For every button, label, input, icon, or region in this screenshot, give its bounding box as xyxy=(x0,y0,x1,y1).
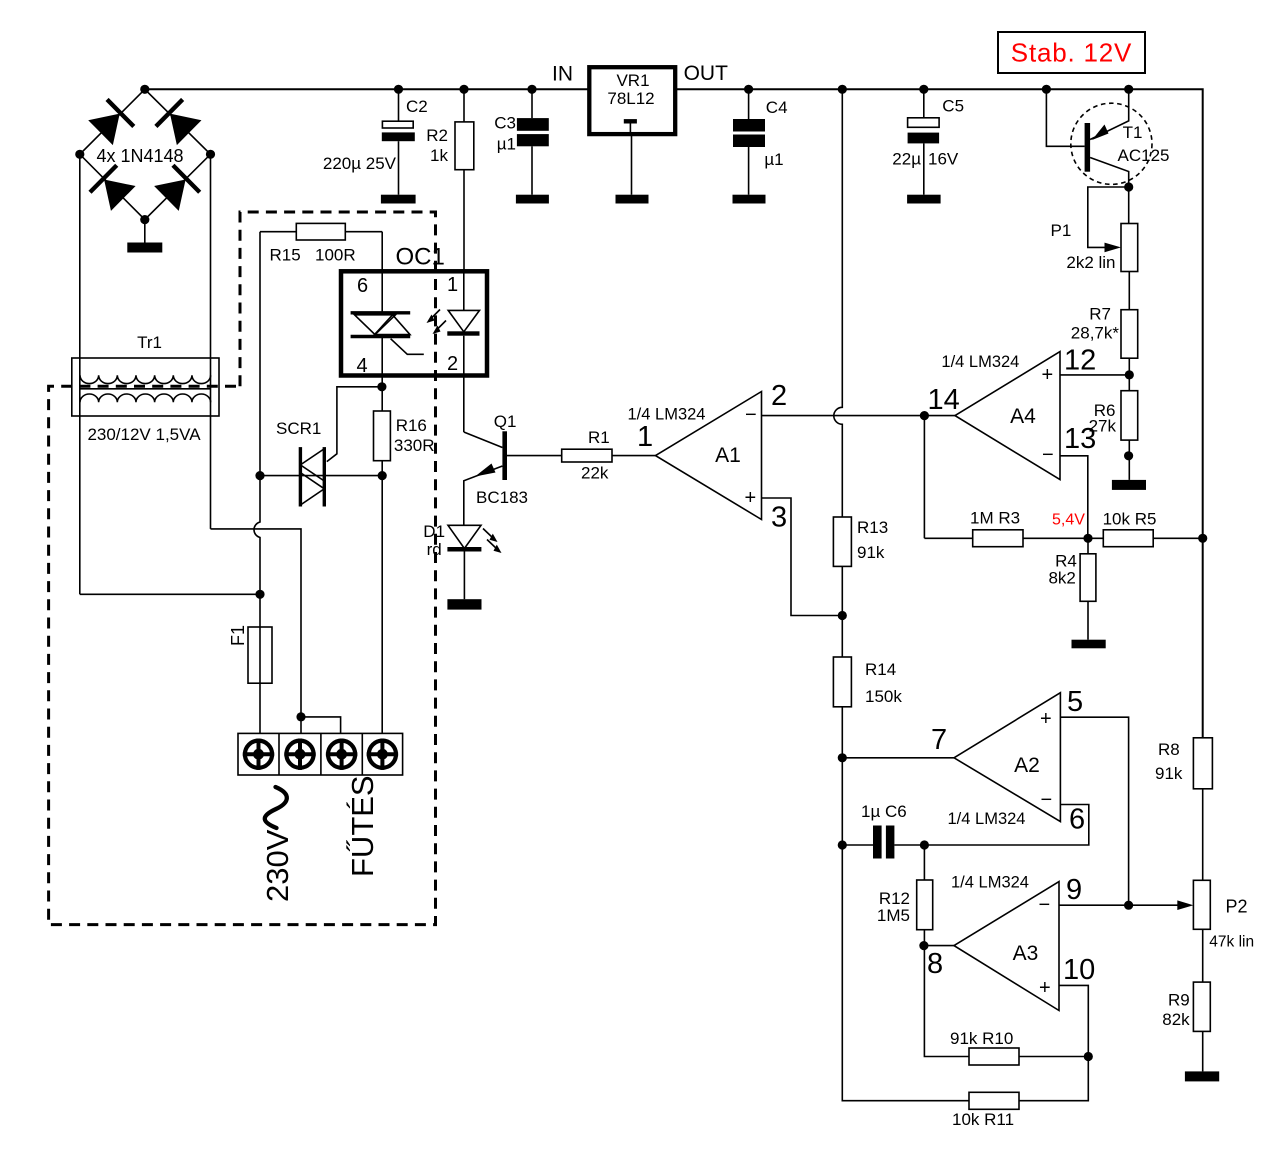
Tr1 primary winding (bottom) xyxy=(80,394,211,402)
svg-text:10k R5: 10k R5 xyxy=(1103,510,1157,529)
svg-text:2: 2 xyxy=(771,380,787,412)
node R10/R11/pin10 xyxy=(1084,1052,1093,1061)
svg-text:BC183: BC183 xyxy=(476,488,528,507)
node bridge left xyxy=(75,150,84,159)
svg-text:8k2: 8k2 xyxy=(1048,569,1075,588)
node rail/T1 base xyxy=(1042,85,1051,94)
node bridge right xyxy=(206,150,215,159)
terminal screw 4 xyxy=(367,739,398,770)
wire P1 to R7 xyxy=(1128,272,1130,310)
diode D top-left xyxy=(87,99,134,146)
optocoupler OC1 box xyxy=(341,271,487,375)
ground below R4 xyxy=(1072,640,1106,649)
Tr1 secondary winding (top) xyxy=(80,375,211,383)
svg-text:R14: R14 xyxy=(865,660,896,679)
svg-text:330R: 330R xyxy=(394,436,435,455)
svg-text:µ1: µ1 xyxy=(497,135,516,154)
wire A4 pin13 down to R3/R4/R5 node xyxy=(1060,456,1088,539)
svg-text:rd: rd xyxy=(427,540,442,559)
wire A2 pin5 to A3 pin9 node xyxy=(1060,717,1128,905)
svg-text:R7: R7 xyxy=(1089,305,1111,324)
ground below D1 xyxy=(447,599,481,609)
ground below bridge xyxy=(127,243,162,253)
node rail/C2 xyxy=(394,85,403,94)
svg-text:22k: 22k xyxy=(581,464,609,483)
wire A3 pin10 down to R10 node xyxy=(1059,985,1088,1056)
node T1 collector/P1 xyxy=(1124,182,1133,191)
svg-text:100R: 100R xyxy=(315,246,356,265)
capacitor C3 xyxy=(531,89,533,118)
svg-text:150k: 150k xyxy=(865,687,902,706)
resistor R11 xyxy=(969,1092,1019,1109)
svg-text:6: 6 xyxy=(1069,804,1085,836)
svg-text:82k: 82k xyxy=(1162,1010,1190,1029)
OC1 internal triac xyxy=(351,311,411,314)
T1 dashed circle xyxy=(1071,103,1152,184)
node R3/R4/R5 xyxy=(1083,534,1092,543)
transistor Q1 BC183 xyxy=(464,432,503,448)
svg-text:1/4 LM324: 1/4 LM324 xyxy=(951,874,1029,892)
resistor R7 xyxy=(1121,310,1138,359)
resistor R16 xyxy=(381,387,383,411)
node OC1 pin4/R16/gate xyxy=(377,382,386,391)
fuse F1 xyxy=(259,594,261,733)
potentiometer P1 xyxy=(1121,224,1138,272)
svg-text:R16: R16 xyxy=(396,416,427,435)
svg-text:−: − xyxy=(1042,444,1054,466)
resistor R10 xyxy=(924,946,969,1057)
ground below C3 xyxy=(516,195,549,204)
svg-text:−: − xyxy=(1041,789,1053,811)
svg-text:12: 12 xyxy=(1064,345,1096,377)
svg-text:2k2 lin: 2k2 lin xyxy=(1066,253,1115,272)
ground below C2 xyxy=(381,195,416,204)
svg-text:IN: IN xyxy=(552,63,573,86)
svg-text:+: + xyxy=(745,487,757,509)
svg-text:R9: R9 xyxy=(1168,991,1190,1010)
node bridge bottom xyxy=(140,215,149,224)
svg-text:28,7k*: 28,7k* xyxy=(1071,324,1120,343)
svg-text:1M5: 1M5 xyxy=(877,906,910,925)
230V tilde symbol xyxy=(265,787,287,828)
wire transformer right down and across to terminal 2 xyxy=(211,529,302,717)
svg-text:47k lin: 47k lin xyxy=(1209,933,1254,950)
svg-text:16V: 16V xyxy=(928,150,959,169)
wire top supply rail right of VR1 and right edge down to R8 xyxy=(675,89,1202,738)
svg-text:OUT: OUT xyxy=(684,62,729,85)
svg-text:10k R11: 10k R11 xyxy=(952,1110,1014,1129)
wire A2 pin6 to C6 node xyxy=(924,805,1088,846)
svg-text:230V: 230V xyxy=(260,829,295,902)
resistor R15 xyxy=(296,223,345,240)
node A4 output xyxy=(920,411,929,420)
svg-text:91k R10: 91k R10 xyxy=(950,1029,1013,1048)
svg-text:R15: R15 xyxy=(270,246,301,265)
ground below C5 xyxy=(907,195,941,204)
node C6 left xyxy=(838,840,847,849)
op-amp A3 (1/4 LM324) xyxy=(954,882,1059,1011)
triac SCR1 xyxy=(299,447,302,506)
svg-text:14: 14 xyxy=(928,384,960,416)
op-amp A4 (1/4 LM324) xyxy=(955,352,1060,480)
svg-text:R13: R13 xyxy=(857,518,888,537)
svg-text:3: 3 xyxy=(771,502,787,534)
capacitor C6 xyxy=(873,826,882,859)
node rail/C4 xyxy=(744,85,753,94)
wire A4 pin12 to R7/R6 node xyxy=(1060,374,1129,376)
resistor R1 xyxy=(562,449,612,462)
svg-text:A2: A2 xyxy=(1014,754,1040,777)
regulator VR1 78L12 xyxy=(589,67,675,134)
resistor R13 xyxy=(833,517,851,566)
D1 light arrows xyxy=(483,529,498,551)
svg-text:5: 5 xyxy=(1067,686,1083,718)
svg-text:VR1: VR1 xyxy=(616,71,649,90)
wire bridge right node down to transformer xyxy=(210,154,212,529)
wire R13 column from rail with hop over A1 output line xyxy=(834,89,843,517)
svg-text:P1: P1 xyxy=(1051,221,1072,240)
Tr1 core line xyxy=(80,388,211,390)
ground below C4 xyxy=(733,195,766,204)
svg-text:2: 2 xyxy=(447,353,458,375)
wire bridge left node down to transformer primary xyxy=(79,154,81,594)
ground below R6 xyxy=(1112,480,1146,490)
svg-text:SCR1: SCR1 xyxy=(276,419,321,438)
node SCR right/R16 xyxy=(378,471,387,480)
terminal screw 1 xyxy=(243,739,274,770)
ground below R9 xyxy=(1185,1071,1219,1081)
resistor R6 xyxy=(1128,375,1130,391)
svg-text:22µ: 22µ xyxy=(892,150,921,169)
svg-text:+: + xyxy=(1039,977,1051,999)
node rail/R13 xyxy=(838,85,847,94)
bridge rectifier 4x 1N4148 diamond wires xyxy=(80,89,211,219)
node F1 top xyxy=(255,590,264,599)
diode D bottom-left xyxy=(90,165,137,212)
wire A1 pin2 to A4 output node xyxy=(762,415,925,417)
svg-text:OC1: OC1 xyxy=(396,244,445,271)
wire terminal 2-3 jumper xyxy=(301,717,341,734)
node C6/R12/pin6 xyxy=(920,840,929,849)
svg-text:A4: A4 xyxy=(1010,405,1036,428)
svg-text:91k: 91k xyxy=(857,543,885,562)
OC1 pin 6 wire xyxy=(381,232,383,313)
wire T1 collector to P1 xyxy=(1128,187,1130,224)
node R14/pin7 xyxy=(838,753,847,762)
node R6 bottom xyxy=(1124,451,1133,460)
terminal screw 2 xyxy=(284,739,315,770)
wire A3 output to R12/R10 node xyxy=(924,945,954,947)
diode D top-right xyxy=(156,99,203,146)
resistor R4 xyxy=(1087,538,1089,554)
node rail/C3 xyxy=(527,85,536,94)
svg-text:9: 9 xyxy=(1066,874,1082,906)
svg-text:8: 8 xyxy=(927,948,943,980)
svg-text:Stab. 12V: Stab. 12V xyxy=(1011,38,1132,68)
potentiometer P2 xyxy=(1193,880,1210,929)
wire bridge bottom node to ground xyxy=(144,220,146,243)
wire R15 left corner down to SCR node with hop over mains wire xyxy=(254,232,260,595)
svg-text:R8: R8 xyxy=(1158,740,1180,759)
resistor R14 xyxy=(833,657,851,707)
svg-text:R2: R2 xyxy=(426,126,448,145)
node A3 out/R12/R10 xyxy=(919,941,928,950)
svg-text:C2: C2 xyxy=(406,97,428,116)
svg-text:A3: A3 xyxy=(1013,942,1039,965)
svg-text:6: 6 xyxy=(357,275,368,297)
LED D1 xyxy=(448,525,481,548)
svg-text:1k: 1k xyxy=(430,146,448,165)
svg-text:Q1: Q1 xyxy=(494,412,517,431)
svg-text:1/4 LM324: 1/4 LM324 xyxy=(948,810,1026,828)
OC1 LED light arrows xyxy=(430,310,447,332)
svg-text:C5: C5 xyxy=(942,97,964,116)
svg-text:230/12V 1,5VA: 230/12V 1,5VA xyxy=(87,425,201,444)
svg-text:78L12: 78L12 xyxy=(607,89,654,108)
svg-text:91k: 91k xyxy=(1155,764,1183,783)
op-amp A1 (1/4 LM324) xyxy=(656,392,762,520)
svg-text:1: 1 xyxy=(637,421,653,453)
svg-text:1: 1 xyxy=(447,274,458,296)
node bridge top xyxy=(140,85,149,94)
node pin9/pin5/P2 xyxy=(1124,901,1133,910)
svg-text:4x 1N4148: 4x 1N4148 xyxy=(96,146,183,166)
dashed isolation boundary box xyxy=(49,212,436,925)
capacitor C4 xyxy=(748,89,750,119)
svg-text:T1: T1 xyxy=(1123,123,1143,142)
node SCR left xyxy=(255,471,264,480)
svg-text:µ1: µ1 xyxy=(764,150,783,169)
node R5/right rail xyxy=(1198,534,1207,543)
svg-text:13: 13 xyxy=(1064,423,1096,455)
wire P1 wiper xyxy=(1088,187,1129,247)
svg-text:4: 4 xyxy=(357,355,368,377)
resistor R9 xyxy=(1193,982,1210,1031)
svg-text:AC125: AC125 xyxy=(1118,146,1170,165)
node rail/R2 xyxy=(459,85,468,94)
node rail/T1 emitter xyxy=(1124,85,1133,94)
resistor R8 xyxy=(1193,738,1212,789)
resistor R12 xyxy=(923,845,925,880)
svg-text:F1: F1 xyxy=(228,625,248,646)
wire R2 to OC1 LED and out pin2 down to Q1 xyxy=(463,271,465,310)
node R7/R6/pin12 xyxy=(1125,370,1134,379)
svg-text:1/4 LM324: 1/4 LM324 xyxy=(941,353,1019,371)
Q1 emitter arrow xyxy=(475,464,496,477)
resistor R3 xyxy=(924,537,972,539)
svg-text:+: + xyxy=(1042,364,1054,386)
wire transformer left down to F1 node xyxy=(80,593,260,595)
T1 emitter arrow (PNP) xyxy=(1092,125,1109,141)
node R13/R14/pin3 xyxy=(838,611,847,620)
terminal block xyxy=(238,733,403,775)
wire A1 pin3 to R13/R14 node xyxy=(762,498,843,616)
svg-text:FŰTÉS: FŰTÉS xyxy=(345,775,380,877)
capacitor C2 xyxy=(398,89,400,121)
wire A3 pin9 to P2 wiper xyxy=(1059,904,1179,906)
svg-text:1µ C6: 1µ C6 xyxy=(861,802,907,821)
wire top supply rail left of VR1 xyxy=(145,88,590,90)
op-amp A2 (1/4 LM324) xyxy=(954,693,1060,822)
wire SCR1 main terminals xyxy=(260,475,382,477)
svg-text:C4: C4 xyxy=(766,98,788,117)
svg-text:R1: R1 xyxy=(588,428,610,447)
diode D bottom-right xyxy=(153,165,200,212)
svg-text:10: 10 xyxy=(1063,954,1095,986)
OC1 internal LED xyxy=(448,310,479,331)
OC1 pin 4 wire xyxy=(381,337,383,387)
transformer Tr1 body xyxy=(72,358,219,416)
node OC1 pin4 / R16 / gate junction xyxy=(327,387,382,462)
node terminal jumper xyxy=(296,712,305,721)
svg-text:−: − xyxy=(745,404,757,426)
svg-text:+: + xyxy=(1040,708,1052,730)
ground below VR1 xyxy=(616,195,649,204)
resistor R2 xyxy=(463,89,465,122)
svg-text:220µ 25V: 220µ 25V xyxy=(323,154,397,173)
transistor T1 AC125 xyxy=(1046,89,1084,146)
wire A2 pin7 from R14 node xyxy=(842,757,954,759)
label Stab. 12V red box xyxy=(998,32,1145,73)
svg-text:−: − xyxy=(1039,894,1051,916)
resistor R5 xyxy=(1103,530,1153,547)
svg-text:P2: P2 xyxy=(1226,897,1248,917)
svg-text:C3: C3 xyxy=(494,114,516,133)
svg-text:1M R3: 1M R3 xyxy=(970,509,1020,528)
svg-text:5,4V: 5,4V xyxy=(1052,512,1085,529)
capacitor C5 xyxy=(923,89,925,118)
node rail/C5 xyxy=(919,85,928,94)
svg-text:7: 7 xyxy=(931,724,947,756)
wire A4 output to node and down to R3 xyxy=(924,416,955,539)
terminal screw 3 xyxy=(326,739,357,770)
svg-text:D1: D1 xyxy=(423,522,445,541)
svg-text:Tr1: Tr1 xyxy=(137,333,162,352)
svg-text:A1: A1 xyxy=(715,444,741,467)
